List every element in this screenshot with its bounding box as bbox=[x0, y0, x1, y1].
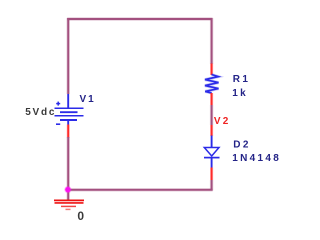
R1 bottom pin bbox=[210, 93, 213, 105]
wire left vertical bbox=[66, 18, 69, 94]
junction node dot bbox=[64, 186, 71, 193]
R1 top pin bbox=[210, 64, 213, 76]
svg-text:1k: 1k bbox=[232, 88, 248, 99]
diode D2 bbox=[204, 136, 220, 168]
D2 bottom pin bbox=[210, 168, 213, 181]
svg-text:0: 0 bbox=[77, 209, 84, 223]
svg-text:1N4148: 1N4148 bbox=[232, 153, 281, 164]
D2 top pin bbox=[210, 125, 213, 136]
svg-text:V1: V1 bbox=[80, 94, 96, 105]
V1 bottom pin bbox=[67, 125, 70, 138]
wire left lower vertical bbox=[66, 137, 69, 190]
wire right vertical bottom bbox=[210, 180, 213, 191]
voltage source V1 (battery symbol) bbox=[55, 94, 84, 125]
ground symbol bbox=[54, 200, 84, 209]
resistor R1 (zigzag) bbox=[205, 75, 219, 94]
ground stub bbox=[66, 190, 69, 200]
svg-text:D2: D2 bbox=[233, 139, 251, 150]
wire bottom horizontal bbox=[67, 188, 212, 191]
svg-text:V2: V2 bbox=[214, 116, 231, 127]
svg-text:5Vdc: 5Vdc bbox=[25, 107, 56, 118]
wire top horizontal bbox=[67, 17, 212, 20]
wire middle R1 to D2 bbox=[210, 105, 213, 125]
svg-text:R1: R1 bbox=[233, 74, 251, 85]
wire right vertical top bbox=[210, 18, 213, 64]
